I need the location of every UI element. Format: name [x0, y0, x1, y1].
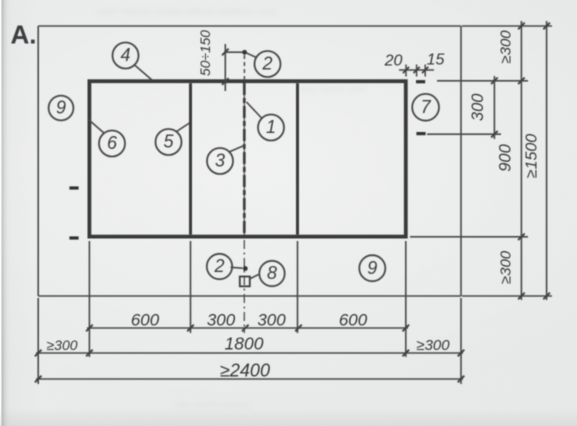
svg-text:15: 15	[427, 52, 445, 69]
svg-text:600: 600	[339, 311, 368, 330]
svg-text:8: 8	[267, 263, 277, 283]
svg-text:≥300: ≥300	[498, 250, 515, 284]
svg-text:1: 1	[266, 117, 276, 137]
svg-text:50÷150: 50÷150	[198, 30, 213, 76]
svg-text:300: 300	[207, 311, 236, 330]
svg-text:≥300: ≥300	[46, 337, 77, 353]
svg-text:300: 300	[469, 93, 487, 121]
svg-text:3: 3	[215, 151, 225, 171]
svg-text:300: 300	[257, 311, 286, 330]
svg-text:A.: A.	[11, 20, 37, 50]
svg-text:4: 4	[120, 45, 130, 65]
svg-text:6: 6	[107, 133, 118, 153]
svg-text:1800: 1800	[225, 334, 264, 354]
svg-text:9: 9	[367, 258, 377, 278]
svg-text:2: 2	[213, 256, 224, 276]
svg-text:≥300: ≥300	[498, 30, 515, 64]
svg-text:5: 5	[163, 132, 174, 152]
svg-text:600: 600	[131, 311, 160, 330]
svg-text:900: 900	[497, 143, 515, 171]
svg-text:≥1500: ≥1500	[524, 134, 541, 178]
svg-text:9: 9	[56, 98, 66, 118]
svg-text:≥300: ≥300	[416, 337, 450, 354]
svg-text:2: 2	[261, 54, 272, 74]
svg-text:≥2400: ≥2400	[220, 361, 270, 381]
svg-text:7: 7	[421, 97, 432, 117]
svg-text:20: 20	[384, 53, 403, 70]
